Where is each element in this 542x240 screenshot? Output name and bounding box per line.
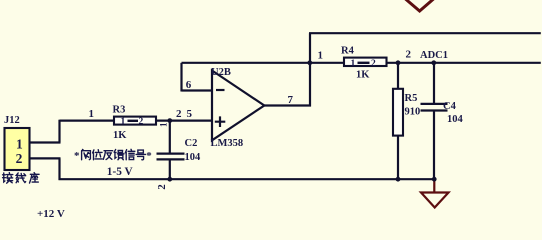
svg-text:2: 2: [176, 108, 182, 120]
svg-text:104: 104: [447, 114, 464, 125]
svg-text:1: 1: [16, 136, 23, 151]
svg-text:1-5 V: 1-5 V: [107, 166, 134, 178]
svg-text:*: *: [146, 150, 152, 162]
svg-text:C2: C2: [185, 138, 198, 149]
svg-text:LM358: LM358: [211, 138, 244, 149]
svg-text:1K: 1K: [356, 70, 370, 81]
svg-text:ADC1: ADC1: [420, 50, 448, 61]
svg-text:1: 1: [89, 108, 95, 120]
svg-text:*: *: [74, 150, 80, 162]
svg-text:104: 104: [185, 152, 202, 163]
svg-text:2: 2: [406, 49, 412, 61]
svg-text:910: 910: [405, 107, 421, 118]
svg-text:1: 1: [121, 117, 126, 127]
svg-text:5: 5: [187, 108, 193, 120]
svg-text:J12: J12: [4, 115, 20, 126]
svg-text:2: 2: [16, 151, 23, 166]
svg-text:U2B: U2B: [211, 67, 231, 78]
svg-text:1: 1: [318, 50, 324, 62]
svg-text:1: 1: [159, 122, 169, 127]
svg-text:R5: R5: [405, 93, 418, 104]
svg-text:R4: R4: [341, 46, 355, 57]
svg-text:2: 2: [371, 59, 376, 69]
svg-text:7: 7: [288, 94, 294, 106]
svg-text:1: 1: [351, 59, 356, 69]
svg-text:+12 V: +12 V: [37, 208, 65, 218]
svg-text:2: 2: [156, 184, 168, 190]
svg-text:2: 2: [139, 117, 144, 127]
svg-text:6: 6: [186, 79, 192, 91]
svg-text:1K: 1K: [113, 130, 127, 141]
svg-text:R3: R3: [113, 105, 126, 116]
svg-text:C4: C4: [443, 101, 457, 112]
